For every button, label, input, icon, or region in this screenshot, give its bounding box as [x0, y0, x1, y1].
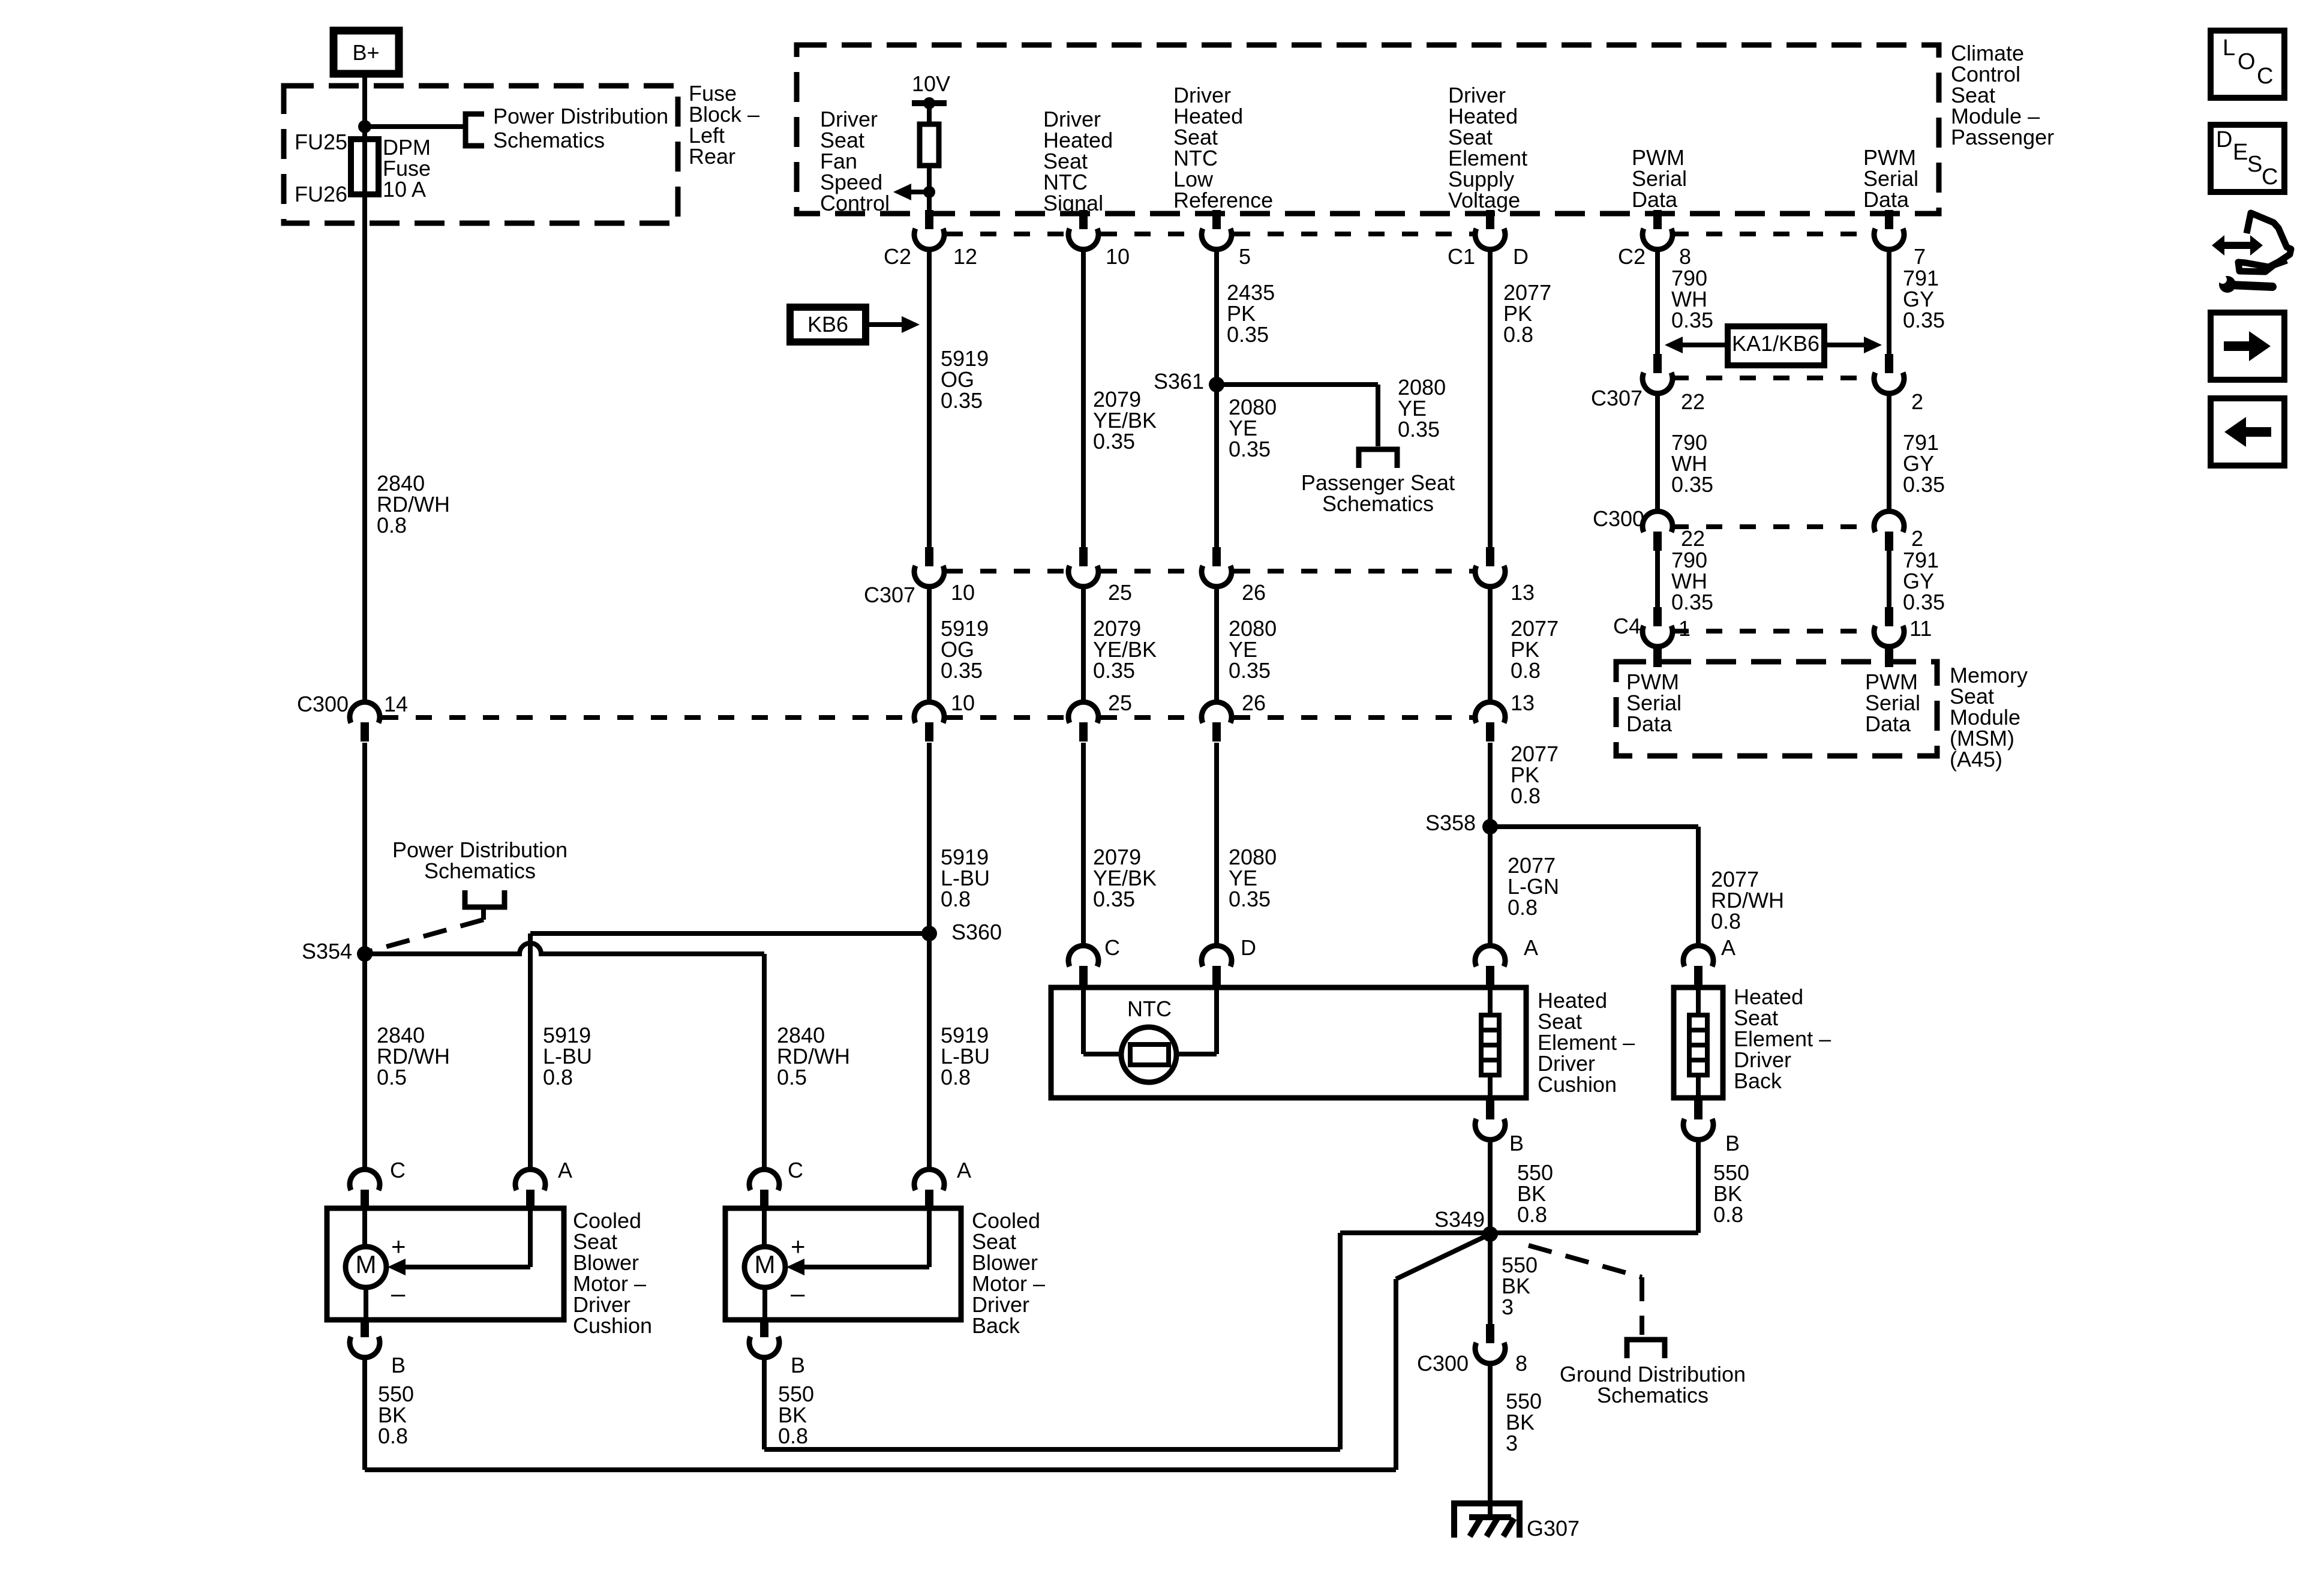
connector element A (back)	[1694, 966, 1703, 985]
wire 790 WH C300 to C4	[1655, 550, 1660, 608]
icon wrench/arrows (service glyph)	[2212, 213, 2291, 293]
svg-text:11: 11	[1909, 616, 1932, 641]
svg-text:Rear: Rear	[689, 144, 735, 169]
svg-text:S354: S354	[302, 939, 352, 963]
wire 2077 PK pin D to C307-13	[1488, 249, 1493, 548]
wire cushion return vertical	[1394, 1279, 1398, 1470]
wire 550 BK 3 S349 to C300-8	[1488, 1234, 1493, 1325]
svg-text:0.35: 0.35	[1903, 590, 1945, 614]
icon left-arrow box	[2211, 398, 2284, 466]
wire S349 diagonal to cushion blower return	[1396, 1234, 1490, 1279]
connector C2 pin 8	[1653, 210, 1662, 229]
wire NTC internal left horizontal	[1083, 1052, 1121, 1056]
junction dot 10V	[923, 97, 935, 109]
svg-text:0.35: 0.35	[1229, 887, 1271, 911]
svg-text:0.8: 0.8	[941, 887, 971, 911]
svg-text:C300: C300	[297, 692, 349, 716]
wire 2840 RD/WH C300-14 to S354	[362, 743, 367, 954]
wire 2077 PK C307 to C300	[1488, 586, 1493, 703]
svg-text:0.35: 0.35	[1671, 590, 1713, 614]
svg-text:0.35: 0.35	[1903, 308, 1945, 332]
svg-text:0.35: 0.35	[1229, 437, 1271, 461]
connector dashed line C4 row	[1673, 629, 1873, 634]
svg-text:C: C	[2262, 164, 2278, 190]
connector pin 10	[1079, 210, 1088, 229]
svg-text:0.8: 0.8	[1517, 1202, 1547, 1227]
svg-text:0.35: 0.35	[1671, 308, 1713, 332]
svg-text:26: 26	[1242, 691, 1266, 715]
connector C300 pin 22	[1653, 532, 1662, 551]
svg-text:0.8: 0.8	[1503, 322, 1533, 347]
svg-text:D: D	[2216, 127, 2232, 152]
connector C4 pin 11	[1885, 607, 1893, 626]
svg-text:S349: S349	[1434, 1207, 1485, 1232]
svg-text:D: D	[1241, 935, 1256, 960]
wire back motor internal bottom	[762, 1287, 767, 1320]
wire element back internal bottom	[1696, 1075, 1701, 1098]
svg-text:0.8: 0.8	[1713, 1202, 1743, 1227]
arrowhead KA1/KB6 right	[1864, 337, 1882, 353]
connector dashed line C307 row (PWM)	[1673, 376, 1873, 380]
svg-text:C300: C300	[1417, 1351, 1469, 1376]
connector dashed line C307 row seg2	[1101, 569, 1199, 574]
connector dashed line C300 row seg3	[1101, 715, 1199, 720]
connector dashed line C2 row (PWM)	[1673, 232, 1873, 236]
wire 550 BK cushion blower B down	[362, 1357, 367, 1470]
svg-text:C2: C2	[1618, 244, 1646, 269]
svg-text:Schematics: Schematics	[493, 128, 605, 152]
svg-text:0.8: 0.8	[1511, 784, 1541, 808]
dashed reference line to S354	[369, 920, 484, 951]
wire KA1/KB6 arrow left	[1682, 343, 1728, 347]
svg-text:C307: C307	[864, 583, 915, 607]
reference box KB6	[790, 307, 866, 342]
connector C4 pin 1	[1653, 607, 1662, 626]
svg-text:22: 22	[1681, 526, 1705, 551]
svg-text:Reference: Reference	[1173, 188, 1273, 212]
svg-text:A: A	[558, 1158, 572, 1182]
heating element symbol (back)	[1689, 1015, 1707, 1075]
connector C307 pin 10	[925, 547, 933, 566]
svg-text:0.35: 0.35	[1227, 322, 1269, 347]
wire 5919 L-BU C300 to blower back motor A	[927, 743, 932, 1170]
svg-text:0.35: 0.35	[1229, 658, 1271, 683]
wire S361 branch to passenger seat schematics	[1217, 382, 1378, 387]
connector C2 pin 12	[925, 210, 933, 229]
connector dashed line C307 row seg3	[1234, 569, 1473, 574]
wire back motor internal top	[762, 1208, 767, 1247]
motor M circle (back)	[744, 1247, 785, 1287]
connector C1 pin D	[1486, 210, 1494, 229]
svg-text:(A45): (A45)	[1950, 747, 2002, 772]
svg-text:0.8: 0.8	[378, 1424, 408, 1448]
wire 550 BK 3 to ground G307	[1488, 1363, 1493, 1518]
wire 790 WH C307 to C300	[1655, 393, 1660, 512]
wire 10V to resistor	[927, 103, 932, 124]
svg-text:Data: Data	[1865, 712, 1911, 736]
arrowhead KB6	[902, 316, 920, 333]
wire 2080 YE C307 to C300	[1214, 586, 1219, 703]
svg-text:10: 10	[951, 691, 975, 715]
arrowhead into back motor	[786, 1259, 804, 1275]
svg-text:12: 12	[953, 244, 977, 269]
svg-text:B: B	[1725, 1131, 1740, 1155]
wire back blower B horizontal	[764, 1447, 1340, 1452]
svg-text:C: C	[390, 1158, 406, 1182]
wire cushion motor internal arrow shaft	[406, 1265, 530, 1269]
svg-text:G307: G307	[1527, 1516, 1580, 1541]
connector C307 pin 13	[1486, 547, 1494, 566]
svg-text:Data: Data	[1632, 187, 1678, 212]
svg-text:Voltage: Voltage	[1448, 188, 1520, 212]
wire 791 GY C300 to C4	[1887, 550, 1891, 608]
connector C300 pin 10	[925, 722, 933, 742]
connector C300 pin 25	[1079, 722, 1088, 742]
wire S354 horizontal to back blower C (with hop)	[365, 943, 764, 954]
connector cushion blower pin C	[361, 1190, 369, 1209]
svg-text:Power Distribution: Power Distribution	[493, 104, 668, 128]
wire branch down to off-page bracket	[1376, 385, 1380, 446]
connector pin 7	[1885, 210, 1893, 229]
connector pin 5	[1212, 210, 1221, 229]
wire 550 BK back blower B down	[762, 1357, 767, 1449]
svg-text:0.8: 0.8	[543, 1065, 573, 1089]
motor M circle (cushion)	[346, 1247, 386, 1287]
connector C300 pin 2	[1885, 532, 1893, 551]
svg-text:–: –	[391, 1279, 406, 1307]
wire cushion motor internal bottom	[364, 1287, 368, 1320]
wire element back internal top	[1696, 987, 1701, 1015]
connector element A (cushion)	[1486, 966, 1494, 985]
svg-text:A: A	[957, 1158, 971, 1182]
component box cooled seat blower motor cushion	[327, 1208, 564, 1320]
connector back blower pin C	[760, 1190, 768, 1209]
wire resistor to pin 12	[927, 166, 932, 211]
svg-text:0.8: 0.8	[377, 513, 407, 538]
reference box KA1/KB6	[1728, 326, 1824, 365]
svg-text:13: 13	[1511, 691, 1535, 715]
off-page bracket power distribution (top)	[466, 114, 484, 146]
connector C300 pin 14	[361, 722, 369, 742]
svg-text:–: –	[791, 1279, 805, 1307]
svg-text:FU25: FU25	[295, 130, 347, 154]
svg-text:Cushion: Cushion	[1538, 1072, 1617, 1097]
wire NTC internal left	[1081, 987, 1086, 1054]
heating element symbol (cushion)	[1481, 1015, 1499, 1075]
wire 5919 OG pin 12 to C307-10	[927, 249, 932, 548]
splice S349	[1482, 1226, 1498, 1242]
wire cushion motor internal top	[362, 1208, 367, 1247]
svg-text:Control: Control	[820, 191, 890, 215]
svg-text:0.8: 0.8	[941, 1065, 971, 1089]
resistor fan speed control (module internal)	[920, 124, 939, 166]
component box cooled seat blower motor back	[725, 1208, 961, 1320]
wire 2079 YE/BK pin 10 to C307-25	[1081, 249, 1086, 548]
svg-text:NTC: NTC	[1127, 996, 1172, 1021]
svg-text:C: C	[2257, 64, 2273, 89]
connector NTC pin C	[1079, 966, 1088, 985]
svg-text:0.8: 0.8	[1508, 895, 1538, 920]
module Climate Control Seat Module dashed box	[797, 45, 1939, 214]
svg-text:Data: Data	[1626, 712, 1673, 736]
wire 2079 YE/BK C300 to NTC pin C	[1081, 743, 1086, 946]
connector C300 pin 26	[1212, 722, 1221, 742]
wire 2077 RD/WH down to back element A	[1696, 827, 1701, 946]
NTC thermistor circle	[1121, 1027, 1176, 1082]
dashed reference line S349 to ground distribution	[1529, 1245, 1642, 1277]
wire back motor internal arrow shaft	[804, 1265, 929, 1269]
svg-text:0.35: 0.35	[1093, 429, 1135, 454]
wire element cushion internal top	[1488, 987, 1493, 1015]
wire back motor internal A	[927, 1208, 932, 1267]
svg-text:Back: Back	[1734, 1068, 1782, 1093]
connector dashed line C307 row seg1	[947, 569, 1066, 574]
connector dashed line C2/C1 row seg1	[947, 232, 1066, 236]
svg-text:0.35: 0.35	[941, 658, 983, 683]
svg-text:0.8: 0.8	[1711, 909, 1741, 933]
wire 2840 RD/WH to back blower C	[762, 954, 767, 1170]
wire cushion motor internal A	[528, 1208, 533, 1267]
wire 5919 OG C307 to C300	[927, 586, 932, 703]
svg-text:0.35: 0.35	[1398, 417, 1440, 442]
connector C307 pin 26	[1212, 547, 1221, 566]
wire 791 GY pin 7 to C307-2	[1887, 249, 1891, 355]
svg-text:0.35: 0.35	[1093, 887, 1135, 911]
svg-text:0.8: 0.8	[778, 1424, 808, 1448]
svg-text:C2: C2	[884, 244, 911, 269]
svg-text:5: 5	[1239, 244, 1251, 269]
connector back blower pin A	[925, 1190, 933, 1209]
svg-text:Signal: Signal	[1043, 191, 1103, 215]
wire 791 GY C307 to C300	[1887, 393, 1891, 512]
arrowhead fan speed control	[893, 184, 911, 200]
splice S358	[1482, 819, 1498, 834]
ground symbol G307	[1454, 1503, 1520, 1538]
wire NTC internal right	[1214, 987, 1219, 1054]
svg-text:0.35: 0.35	[941, 388, 983, 413]
junction dot fan speed control	[923, 186, 935, 198]
icon right-arrow box	[2211, 313, 2284, 380]
splice S360	[921, 926, 937, 941]
svg-text:Schematics: Schematics	[1597, 1383, 1709, 1407]
svg-text:+: +	[791, 1232, 806, 1260]
svg-text:S360: S360	[951, 920, 1002, 944]
junction dot at B+ feed	[358, 120, 371, 133]
stub C4-1 into MSM	[1653, 648, 1662, 667]
wire S358 branch to back element	[1490, 824, 1698, 829]
svg-text:B: B	[791, 1353, 805, 1377]
svg-text:0.5: 0.5	[377, 1065, 407, 1089]
svg-text:KA1/KB6: KA1/KB6	[1732, 331, 1819, 356]
svg-text:C4: C4	[1613, 614, 1641, 638]
wire KA1/KB6 arrow right	[1824, 343, 1864, 347]
svg-text:C: C	[788, 1158, 803, 1182]
svg-text:A: A	[1721, 935, 1736, 960]
wire 2080 YE C300 to NTC pin D	[1214, 743, 1219, 946]
svg-text:10 A: 10 A	[383, 177, 426, 202]
svg-text:3: 3	[1506, 1431, 1518, 1455]
svg-text:10: 10	[951, 580, 975, 605]
svg-text:Back: Back	[972, 1313, 1020, 1338]
wire 2079 YE/BK C307 to C300	[1081, 586, 1086, 703]
connector element B (cushion)	[1486, 1100, 1494, 1119]
connector dashed line C2/C1 row seg2	[1101, 232, 1199, 236]
connector dashed line C2/C1 row seg3	[1234, 232, 1473, 236]
svg-text:A: A	[1524, 935, 1538, 960]
connector C307 pin 25	[1079, 547, 1088, 566]
svg-text:FU26: FU26	[295, 182, 347, 206]
svg-text:M: M	[356, 1250, 377, 1278]
wire S349 left vertical	[1338, 1233, 1343, 1449]
stub C4-11 into MSM	[1885, 648, 1893, 667]
connector dashed line C300 row seg1	[382, 715, 912, 720]
wire 790 WH pin 8 to C307-22	[1655, 249, 1660, 355]
wire 5919 L-BU down to cushion blower A	[528, 933, 533, 1170]
svg-text:0.5: 0.5	[777, 1065, 807, 1089]
svg-text:3: 3	[1502, 1295, 1514, 1319]
power symbol B+ box	[334, 31, 399, 74]
arrowhead KA1/KB6 left	[1665, 337, 1683, 353]
svg-text:0.8: 0.8	[1511, 658, 1541, 683]
stub from bracket	[481, 907, 486, 920]
connector C307 pin 2	[1885, 354, 1893, 373]
connector C300 pin 8	[1486, 1324, 1494, 1343]
connector C300 pin 13	[1486, 722, 1494, 742]
svg-text:8: 8	[1515, 1351, 1527, 1376]
connector cushion blower pin B	[361, 1318, 369, 1337]
svg-text:25: 25	[1108, 580, 1132, 605]
off-page bracket ground distribution	[1627, 1340, 1665, 1358]
arrowhead into cushion motor	[388, 1259, 406, 1275]
splice S354	[357, 946, 373, 962]
connector back blower pin B	[760, 1318, 768, 1337]
svg-text:0.35: 0.35	[1671, 472, 1713, 497]
svg-text:C300: C300	[1593, 506, 1644, 531]
wire 2077 PK C300 to S358 and element A	[1488, 743, 1493, 946]
wire 550 BK back element down	[1696, 1139, 1701, 1233]
svg-text:2: 2	[1911, 389, 1923, 414]
wire S360 branch to cushion blower A	[530, 931, 929, 936]
dashed reference vertical	[1640, 1277, 1644, 1335]
wire 2840 RD/WH to cushion blower C	[362, 954, 367, 1170]
wire back element B to S349	[1490, 1230, 1698, 1235]
wire branch to power distribution reference	[365, 124, 466, 129]
wire 550 BK cushion element to S349	[1488, 1139, 1493, 1234]
svg-text:B+: B+	[352, 40, 379, 65]
connector dashed line C300 row (PWM)	[1673, 524, 1873, 529]
fuse DPM 10A symbol	[351, 139, 379, 194]
svg-text:13: 13	[1511, 580, 1535, 605]
connector cushion blower pin A	[526, 1190, 535, 1209]
svg-text:KB6: KB6	[807, 312, 848, 337]
right arrow	[2224, 331, 2271, 361]
svg-text:L: L	[2223, 35, 2235, 61]
fuse block dashed box	[284, 86, 678, 223]
wire 2435 PK pin 5 through S361 to C307-26	[1214, 249, 1219, 548]
splice S361	[1209, 377, 1224, 392]
connector dashed line C300 row seg2	[947, 715, 1066, 720]
svg-text:0.35: 0.35	[1903, 472, 1945, 497]
svg-text:Passenger: Passenger	[1951, 125, 2054, 149]
svg-text:B: B	[1509, 1131, 1524, 1155]
svg-text:Schematics: Schematics	[1322, 491, 1434, 516]
svg-text:Cushion: Cushion	[573, 1313, 652, 1338]
icon LOC box	[2211, 31, 2284, 98]
svg-text:26: 26	[1242, 580, 1266, 605]
wire B+ through fuse to C300-14	[362, 75, 367, 703]
icon DESC box	[2211, 125, 2284, 192]
wire KB6 arrow shaft	[866, 322, 902, 327]
module Memory Seat Module dashed box	[1616, 662, 1937, 756]
svg-text:2: 2	[1911, 526, 1923, 551]
connector dashed line C300 row seg4	[1234, 715, 1473, 720]
svg-text:8: 8	[1679, 244, 1691, 269]
svg-text:1: 1	[1679, 616, 1691, 641]
svg-text:25: 25	[1108, 691, 1132, 715]
wire S349 left horizontal	[1340, 1230, 1490, 1235]
svg-text:S: S	[2247, 152, 2262, 177]
svg-text:C1: C1	[1448, 244, 1475, 269]
svg-text:M: M	[755, 1250, 776, 1278]
component box heated seat element back	[1674, 987, 1723, 1098]
left arrow	[2224, 417, 2271, 447]
svg-text:Data: Data	[1863, 187, 1909, 212]
wire element cushion internal bottom	[1488, 1075, 1493, 1098]
svg-text:S361: S361	[1154, 369, 1204, 394]
off-page bracket passenger seat schematics	[1359, 449, 1397, 468]
svg-text:10: 10	[1106, 244, 1130, 269]
wire to fan speed control arrow	[909, 190, 929, 194]
NTC thermistor inner resistor	[1130, 1044, 1169, 1065]
off-page bracket power distribution (S354)	[465, 890, 505, 907]
svg-text:C307: C307	[1591, 386, 1643, 410]
svg-text:+: +	[391, 1232, 406, 1260]
svg-text:22: 22	[1681, 389, 1705, 414]
svg-text:E: E	[2233, 140, 2248, 165]
svg-text:0.35: 0.35	[1093, 658, 1135, 683]
connector NTC pin D	[1212, 966, 1221, 985]
svg-text:B: B	[391, 1353, 406, 1377]
wire NTC internal right horizontal	[1176, 1052, 1217, 1056]
svg-text:O: O	[2238, 49, 2256, 74]
10V supply bar	[912, 100, 947, 106]
svg-text:7: 7	[1914, 244, 1926, 269]
svg-text:14: 14	[384, 692, 408, 716]
svg-text:C: C	[1104, 935, 1120, 960]
svg-text:10V: 10V	[912, 71, 950, 96]
svg-text:D: D	[1513, 244, 1529, 269]
svg-text:Schematics: Schematics	[424, 858, 536, 883]
connector element B (back)	[1694, 1100, 1703, 1119]
component box NTC / heated seat element cushion	[1051, 987, 1526, 1098]
svg-text:S358: S358	[1425, 810, 1476, 835]
wire cushion blower B horizontal	[365, 1467, 1396, 1472]
connector C307 pin 22	[1653, 354, 1662, 373]
